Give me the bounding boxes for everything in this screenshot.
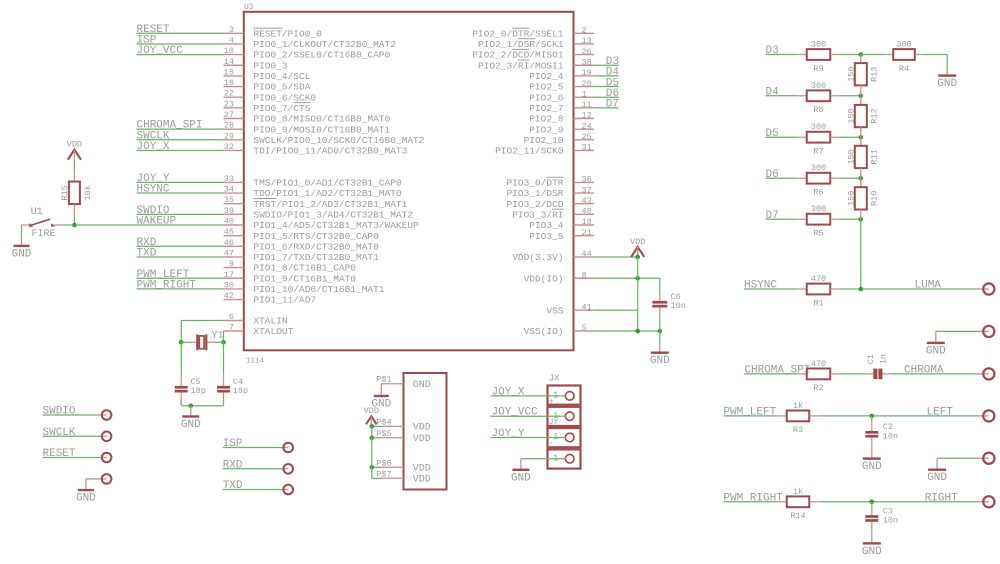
- pin P$4 VDD: [370, 418, 431, 434]
- wire net JOY_Y (JX): [491, 428, 566, 440]
- wire net PWM_LEFT: [137, 269, 224, 281]
- svg-text:PIO2_0/DTR/SSEL1: PIO2_0/DTR/SSEL1: [472, 28, 564, 39]
- svg-text:150: 150: [846, 67, 856, 82]
- wire net CHROMA_SPI: [137, 120, 224, 132]
- wire net RXD: [137, 237, 224, 249]
- capacitor C2 10n: [865, 416, 898, 458]
- svg-text:LUMA: LUMA: [915, 280, 942, 292]
- svg-text:29: 29: [224, 131, 234, 141]
- wire ladder D7 down to LUMA node: [860, 219, 862, 289]
- wire net TXD: [137, 247, 224, 259]
- connector JX pin 3: [548, 428, 581, 448]
- wire net HSYNC: [137, 184, 224, 196]
- svg-text:150: 150: [846, 149, 856, 164]
- wire net HSYNC: [744, 280, 797, 292]
- resistor R9 300: [797, 40, 839, 74]
- U3 pin 29 SWCLK/PIO0_10/SCK0/CT16B0_MAT2: [224, 131, 425, 146]
- wire VSS pin5: [594, 329, 662, 334]
- svg-text:VDD: VDD: [413, 434, 431, 445]
- svg-text:TMS/PIO1_0/AD1/CT32B1_CAP0: TMS/PIO1_0/AD1/CT32B1_CAP0: [253, 178, 402, 189]
- svg-text:SWDIO/PIO1_3/AD4/CT32B1_MAT2: SWDIO/PIO1_3/AD4/CT32B1_MAT2: [253, 209, 413, 220]
- svg-text:D7: D7: [766, 210, 779, 222]
- svg-text:FIRE: FIRE: [32, 229, 56, 240]
- svg-text:R6: R6: [813, 188, 823, 198]
- svg-text:34: 34: [224, 185, 234, 195]
- resistor R7 300: [797, 122, 839, 156]
- svg-text:PIO3_3/RI: PIO3_3/RI: [512, 209, 563, 220]
- ground GND (crystal): [181, 406, 201, 431]
- wire VDD header vertical: [371, 426, 373, 478]
- svg-text:2: 2: [582, 26, 587, 36]
- svg-text:1k: 1k: [793, 487, 803, 497]
- ground GND (P$1): [371, 384, 391, 411]
- svg-text:31: 31: [582, 143, 592, 153]
- svg-text:D6: D6: [766, 169, 779, 181]
- wire R9 to ladder node: [840, 52, 864, 57]
- connector power header body: [404, 373, 447, 490]
- svg-text:PIO0_1/CLKOUT/CT32B0_MAT2: PIO0_1/CLKOUT/CT32B0_MAT2: [253, 39, 396, 50]
- svg-text:11: 11: [582, 100, 592, 110]
- wire net CHROMA_SPI: [744, 365, 810, 377]
- svg-text:JY: JY: [549, 418, 559, 427]
- wire R4 to GND: [924, 55, 947, 67]
- svg-text:U1: U1: [31, 207, 43, 218]
- svg-text:PIO0_5/SDA: PIO0_5/SDA: [253, 82, 310, 93]
- svg-text:PIO0_3: PIO0_3: [253, 60, 288, 71]
- svg-text:TXD: TXD: [137, 247, 157, 259]
- svg-text:36: 36: [582, 175, 592, 185]
- pad CHROMA: [979, 368, 994, 379]
- wire net WAKEUP: [77, 216, 224, 228]
- U3 pin 45 PIO1_5/RTS/CT32B0_CAP0: [224, 227, 380, 242]
- svg-text:GND: GND: [927, 472, 947, 484]
- svg-text:20: 20: [582, 79, 592, 89]
- svg-text:U3: U3: [244, 3, 254, 12]
- power VDD symbol (U3): [630, 237, 645, 257]
- svg-text:VSS: VSS: [546, 305, 563, 316]
- pad ISP: [223, 438, 293, 452]
- U3 pin 9 PIO1_8/CT16B1_CAP0: [224, 259, 357, 274]
- capacitor C6 10n: [652, 278, 686, 331]
- ground GND (R4): [937, 67, 957, 91]
- svg-text:XTALOUT: XTALOUT: [253, 326, 293, 337]
- wire U1 to GND: [22, 225, 30, 236]
- U3 pin 15 PIO0_4/SCL: [224, 67, 311, 82]
- power VDD symbol (R15): [67, 140, 82, 182]
- U3 pin 37 PIO3_1/DSR: [506, 185, 594, 199]
- U3 pin 3 RESET/PIO0_0: [224, 25, 323, 40]
- svg-text:PIO0_9/MOSI0/CT16B0_MAT1: PIO0_9/MOSI0/CT16B0_MAT1: [253, 124, 390, 135]
- svg-text:3: 3: [229, 25, 234, 35]
- capacitor C1 1n: [866, 354, 889, 379]
- svg-text:39: 39: [224, 206, 234, 216]
- svg-text:GND: GND: [650, 355, 670, 367]
- svg-text:JX: JX: [549, 374, 560, 384]
- pad RXD: [223, 459, 293, 473]
- svg-text:VDD(IO): VDD(IO): [524, 273, 564, 284]
- svg-text:12: 12: [582, 111, 592, 121]
- svg-text:300: 300: [811, 204, 826, 214]
- wire net JOY_VCC: [137, 45, 224, 57]
- svg-text:VDD: VDD: [364, 406, 379, 416]
- ground GND (pad1): [926, 331, 946, 357]
- svg-text:HSYNC: HSYNC: [744, 280, 777, 292]
- svg-text:7: 7: [229, 323, 234, 333]
- resistor R1 470: [797, 274, 839, 308]
- svg-text:R5: R5: [813, 229, 823, 239]
- svg-text:PIO2_1/DSR/SCK1: PIO2_1/DSR/SCK1: [478, 39, 564, 50]
- svg-text:HSYNC: HSYNC: [137, 184, 170, 196]
- svg-text:10n: 10n: [883, 516, 898, 526]
- svg-text:27: 27: [224, 110, 234, 120]
- svg-text:PIO2_8: PIO2_8: [529, 114, 564, 125]
- svg-text:48: 48: [582, 207, 592, 217]
- wire R6 to ladder node: [840, 176, 864, 181]
- U3 pin 39 SWDIO/PIO1_3/AD4/CT32B1_MAT2: [224, 206, 414, 221]
- svg-text:JOY_Y: JOY_Y: [492, 428, 525, 440]
- svg-text:PIO0_2/SSEL0/CT16B0_CAP0: PIO0_2/SSEL0/CT16B0_CAP0: [253, 50, 390, 61]
- svg-text:R8: R8: [813, 105, 823, 115]
- svg-text:42: 42: [224, 291, 234, 301]
- svg-text:28: 28: [224, 121, 234, 131]
- svg-text:22: 22: [224, 89, 234, 99]
- svg-text:PIO1_11/AD7: PIO1_11/AD7: [253, 295, 316, 306]
- svg-text:PIO3_0/DTR: PIO3_0/DTR: [506, 178, 563, 189]
- U3 pin 4 PIO0_1/CLKOUT/CT32B0_MAT2: [224, 35, 397, 50]
- svg-text:GND: GND: [926, 345, 946, 357]
- svg-text:R9: R9: [813, 64, 823, 74]
- svg-text:150: 150: [846, 108, 856, 123]
- wire net PWM_RIGHT: [723, 492, 783, 504]
- U3 pin 48 PIO3_3/RI: [512, 207, 594, 221]
- svg-text:38: 38: [582, 57, 592, 67]
- svg-text:R3: R3: [793, 425, 803, 435]
- svg-text:R2: R2: [813, 383, 823, 393]
- svg-text:300: 300: [811, 81, 826, 91]
- svg-text:PIO3_1/DSR: PIO3_1/DSR: [506, 188, 563, 199]
- ground GND (pad2): [927, 458, 947, 484]
- svg-text:PIO2_3/RI/MOSI1: PIO2_3/RI/MOSI1: [478, 60, 564, 71]
- U3 pin 42 PIO1_11/AD7: [224, 291, 317, 306]
- svg-text:24: 24: [582, 121, 592, 131]
- svg-text:CHROMA: CHROMA: [904, 365, 944, 377]
- U3 pin 46 PIO1_6/RXD/CT32B0_MAT0: [224, 238, 380, 253]
- U3 pin 40 PIO1_4/AD5/CT32B1_MAT3/WAKEUP: [224, 217, 420, 232]
- resistor R2 470: [797, 359, 839, 393]
- svg-text:32: 32: [224, 142, 234, 152]
- svg-text:PWM_RIGHT: PWM_RIGHT: [137, 279, 197, 291]
- svg-text:R11: R11: [870, 149, 880, 164]
- U3 pin 8 VDD(IO): [524, 270, 595, 284]
- svg-text:35: 35: [224, 195, 234, 205]
- svg-text:SWDIO: SWDIO: [43, 406, 76, 418]
- svg-text:GND: GND: [181, 419, 201, 431]
- wire C5-C4 bottom: [181, 404, 223, 409]
- svg-text:R1: R1: [813, 298, 823, 308]
- node FIRE junction: [72, 223, 77, 228]
- ground GND (C2): [862, 457, 882, 473]
- svg-text:PIO1_7/TXD/CT32B0_MAT1: PIO1_7/TXD/CT32B0_MAT1: [253, 252, 379, 263]
- pad TXD: [223, 480, 293, 494]
- connector JX pin 2: [548, 407, 581, 427]
- U3 pin 26 PIO2_2/DCD/MISO1: [472, 47, 594, 61]
- ground GND (C6): [650, 331, 670, 367]
- pad SWDIO: [43, 406, 112, 420]
- svg-text:10n: 10n: [671, 301, 686, 311]
- svg-text:9: 9: [229, 259, 234, 269]
- svg-text:300: 300: [896, 40, 911, 50]
- svg-text:1: 1: [553, 431, 559, 442]
- U3 pin 35 TRST/PIO1_2/AD3/CT32B1_MAT1: [224, 195, 408, 210]
- U3 pin 22 PIO0_6/SCK0: [224, 89, 317, 104]
- svg-text:D5: D5: [766, 128, 779, 140]
- U3 pin 6 XTALIN: [224, 312, 288, 327]
- svg-text:1: 1: [553, 390, 559, 401]
- U3 pin 12 PIO2_8: [529, 111, 594, 125]
- wire net LEFT: [819, 407, 979, 419]
- svg-text:VSS(IO): VSS(IO): [524, 326, 564, 337]
- wire XTALIN: [181, 321, 223, 343]
- wire net LUMA: [840, 280, 980, 292]
- wire net ISP: [137, 34, 224, 46]
- wire net D6 (at U3): [594, 88, 619, 100]
- svg-text:PIO1_4/AD5/CT32B1_MAT3/WAKEUP: PIO1_4/AD5/CT32B1_MAT3/WAKEUP: [253, 220, 419, 231]
- svg-text:PIO3_4: PIO3_4: [529, 220, 564, 231]
- resistor R15 10k: [60, 182, 93, 215]
- svg-text:TRST/PIO1_2/AD3/CT32B1_MAT1: TRST/PIO1_2/AD3/CT32B1_MAT1: [253, 199, 407, 210]
- svg-text:R10: R10: [870, 191, 880, 206]
- svg-text:Y1: Y1: [212, 331, 224, 342]
- svg-text:PIO1_5/RTS/CT32B0_CAP0: PIO1_5/RTS/CT32B0_CAP0: [253, 231, 379, 242]
- wire net D3 (at U3): [594, 56, 619, 68]
- svg-text:1114: 1114: [246, 358, 265, 366]
- svg-text:GND: GND: [862, 461, 882, 473]
- capacitor C5 18p: [175, 342, 206, 406]
- U3 pin 36 PIO3_0/DTR: [506, 175, 594, 189]
- svg-text:R12: R12: [870, 108, 880, 123]
- wire net JOY_X: [137, 141, 224, 153]
- U3 pin 2 PIO2_0/DTR/SSEL1: [472, 26, 594, 40]
- svg-text:RESET: RESET: [43, 448, 76, 460]
- svg-text:RIGHT: RIGHT: [925, 492, 958, 504]
- U3 pin 30 PIO1_10/AD6/CT16B1_MAT1: [224, 280, 385, 295]
- U3 pin 24 PIO2_9: [529, 121, 594, 135]
- svg-text:PIO1_6/RXD/CT32B0_MAT0: PIO1_6/RXD/CT32B0_MAT0: [253, 241, 379, 252]
- svg-text:ISP: ISP: [223, 438, 243, 450]
- wire net SWCLK: [137, 130, 224, 142]
- svg-text:47: 47: [224, 248, 234, 258]
- ground GND (C3): [862, 542, 882, 558]
- wire net SWDIO: [137, 205, 224, 217]
- connector JX pin 4: [548, 449, 581, 468]
- U3 pin 17 PIO1_9/CT16B1_MAT0: [224, 270, 357, 285]
- U3 pin 10 PIO0_2/SSEL0/CT16B0_CAP0: [224, 46, 391, 61]
- resistor R11 150: [846, 137, 879, 178]
- svg-text:TDI/PIO0_11/AD0/CT32B0_MAT3: TDI/PIO0_11/AD0/CT32B0_MAT3: [253, 146, 407, 157]
- svg-text:D3: D3: [766, 45, 779, 57]
- U3 pin 38 PIO2_3/RI/MOSI1: [478, 57, 594, 71]
- svg-text:1k: 1k: [793, 401, 803, 411]
- svg-text:PWM_LEFT: PWM_LEFT: [723, 407, 776, 419]
- svg-text:25: 25: [582, 132, 592, 142]
- svg-text:R15: R15: [60, 185, 70, 200]
- svg-text:VDD: VDD: [413, 475, 431, 486]
- wire net D4 (ladder): [766, 86, 798, 98]
- pin P$6 VDD: [370, 459, 431, 475]
- ground GND (left pads): [76, 479, 96, 505]
- svg-text:6: 6: [229, 312, 234, 322]
- svg-text:PIO1_8/CT16B1_CAP0: PIO1_8/CT16B1_CAP0: [253, 263, 356, 274]
- svg-text:14: 14: [224, 57, 234, 67]
- switch U1 FIRE: [29, 207, 75, 240]
- svg-text:R4: R4: [899, 64, 909, 74]
- ground GND (U1): [12, 236, 32, 260]
- svg-text:D7: D7: [606, 99, 619, 111]
- pad GND 1: [979, 326, 995, 337]
- wire net JOY_X (JX): [491, 386, 566, 398]
- capacitor C3 10n: [865, 502, 898, 542]
- U3 pin 18 PIO3_4: [529, 217, 594, 231]
- wire R5 to ladder node: [840, 217, 864, 222]
- U3 pin 5 VSS(IO): [524, 323, 595, 337]
- wire net JOY_VCC (JX): [491, 407, 566, 419]
- U3 pin 23 PIO0_7/CTS: [224, 99, 311, 114]
- svg-text:PIO2_4: PIO2_4: [529, 71, 564, 82]
- svg-text:SWCLK: SWCLK: [43, 427, 76, 439]
- wire JX pin4 to GND: [521, 458, 566, 460]
- wire net PWM_LEFT: [723, 407, 777, 419]
- wire R15 to junction: [73, 215, 75, 226]
- U3 pin 1 PIO2_6: [529, 89, 594, 103]
- svg-text:PIO2_2/DCD/MISO1: PIO2_2/DCD/MISO1: [472, 50, 564, 61]
- svg-text:470: 470: [811, 274, 826, 284]
- svg-text:PIO3_2/DCD: PIO3_2/DCD: [506, 199, 563, 210]
- svg-text:41: 41: [582, 302, 592, 312]
- wire GND pad 2: [937, 457, 979, 459]
- U3 pin 14 PIO0_3: [224, 57, 288, 72]
- svg-text:JOY_VCC: JOY_VCC: [492, 407, 539, 419]
- resistor R8 300: [797, 81, 839, 115]
- svg-text:33: 33: [224, 174, 234, 184]
- svg-text:300: 300: [811, 122, 826, 132]
- svg-text:44: 44: [582, 249, 592, 259]
- svg-text:PIO0_4/SCL: PIO0_4/SCL: [253, 71, 310, 82]
- wire XTALOUT: [223, 331, 225, 342]
- svg-text:PIO2_9: PIO2_9: [529, 124, 564, 135]
- svg-text:37: 37: [582, 185, 592, 195]
- resistor R14 1k: [778, 487, 820, 521]
- U3 pin 16 PIO0_5/SDA: [224, 78, 311, 93]
- pin P$1 GND: [376, 375, 430, 391]
- svg-text:18: 18: [582, 217, 592, 227]
- svg-text:LEFT: LEFT: [927, 407, 954, 419]
- svg-text:19: 19: [582, 68, 592, 78]
- resistor R6 300: [797, 163, 839, 197]
- svg-text:GND: GND: [511, 472, 531, 484]
- svg-text:WAKEUP: WAKEUP: [137, 216, 177, 228]
- pad LEFT: [979, 410, 994, 421]
- wire net RIGHT: [819, 492, 979, 504]
- U3 pin 28 PIO0_9/MOSI0/CT16B0_MAT1: [224, 121, 391, 136]
- svg-text:R7: R7: [813, 147, 823, 157]
- svg-text:-: -: [549, 439, 554, 448]
- wire net CHROMA: [882, 365, 979, 377]
- svg-text:PIO2_11/SCK0: PIO2_11/SCK0: [495, 146, 564, 157]
- pad SWCLK: [43, 427, 112, 441]
- wire GND pad 1: [936, 330, 979, 332]
- U3 pin 27 PIO0_8/MISO0/CT16B0_MAT0: [224, 110, 391, 125]
- power VDD symbol (header): [364, 406, 379, 427]
- svg-text:10k: 10k: [83, 185, 93, 200]
- wire net PWM_RIGHT: [137, 279, 224, 291]
- svg-text:PIO2_7: PIO2_7: [529, 103, 563, 114]
- resistor R12 150: [846, 96, 879, 137]
- svg-text:GND: GND: [937, 78, 957, 90]
- wire R8 to ladder node: [840, 94, 864, 99]
- svg-text:300: 300: [811, 163, 826, 173]
- wire net RESET: [137, 24, 224, 36]
- svg-text:GND: GND: [862, 546, 882, 558]
- resistor R13 150: [846, 55, 879, 96]
- svg-text:GND: GND: [76, 493, 96, 505]
- svg-text:PIO0_8/MISO0/CT16B0_MAT0: PIO0_8/MISO0/CT16B0_MAT0: [253, 114, 390, 125]
- svg-text:JOY_X: JOY_X: [492, 386, 525, 398]
- svg-text:45: 45: [224, 227, 234, 237]
- U3 pin 20 PIO2_5: [529, 79, 594, 93]
- svg-text:4: 4: [229, 35, 234, 45]
- svg-text:TXD: TXD: [223, 480, 243, 492]
- wire R7 to ladder node: [840, 135, 864, 140]
- pin P$7 VDD: [372, 470, 431, 486]
- U3 pin 41 VSS: [546, 302, 594, 316]
- svg-text:PIO1_10/AD6/CT16B1_MAT1: PIO1_10/AD6/CT16B1_MAT1: [253, 284, 384, 295]
- wire net D5 (ladder): [766, 128, 798, 140]
- U3 pin 21 PIO3_5: [529, 228, 594, 242]
- U3 pin 32 TDI/PIO0_11/AD0/CT32B0_MAT3: [224, 142, 408, 157]
- resistor R4 300: [861, 40, 924, 74]
- U3 pin 44 VDD(3.3V): [512, 249, 594, 263]
- ground GND (JX): [511, 459, 531, 485]
- svg-text:18p: 18p: [191, 386, 206, 396]
- svg-text:46: 46: [224, 238, 234, 248]
- svg-text:30: 30: [224, 280, 234, 290]
- svg-text:13: 13: [582, 36, 592, 46]
- svg-text:TDO/PIO1_1/AD2/CT32B1_MAT0: TDO/PIO1_1/AD2/CT32B1_MAT0: [253, 188, 402, 199]
- svg-text:15: 15: [224, 67, 234, 77]
- svg-text:150: 150: [846, 191, 856, 206]
- U3 pin 19 PIO2_4: [529, 68, 594, 82]
- wire net D4 (at U3): [594, 67, 619, 79]
- svg-text:RESET/PIO0_0: RESET/PIO0_0: [253, 28, 322, 39]
- svg-text:JOY_X: JOY_X: [137, 141, 170, 153]
- U3 pin 13 PIO2_1/DSR/SCK1: [478, 36, 594, 50]
- pad RIGHT: [979, 496, 994, 507]
- svg-text:18p: 18p: [233, 386, 248, 396]
- svg-text:PIO3_5: PIO3_5: [529, 231, 564, 242]
- pad RESET: [43, 448, 112, 462]
- wire net D5 (at U3): [594, 77, 619, 89]
- svg-text:PIO2_6: PIO2_6: [529, 92, 564, 103]
- wire VSS pin41: [594, 309, 638, 311]
- svg-text:16: 16: [224, 78, 234, 88]
- node XTAL junctions: [179, 340, 226, 345]
- node VDD junction pin44: [635, 255, 640, 260]
- svg-text:SWCLK/PIO0_10/SCK0/CT16B0_MAT2: SWCLK/PIO0_10/SCK0/CT16B0_MAT2: [253, 135, 424, 146]
- svg-text:JOY_VCC: JOY_VCC: [137, 45, 184, 57]
- U3 pin 47 PIO1_7/TXD/CT32B0_MAT1: [224, 248, 380, 263]
- svg-text:470: 470: [811, 359, 826, 369]
- U3 pin 31 PIO2_11/SCK0: [495, 143, 594, 157]
